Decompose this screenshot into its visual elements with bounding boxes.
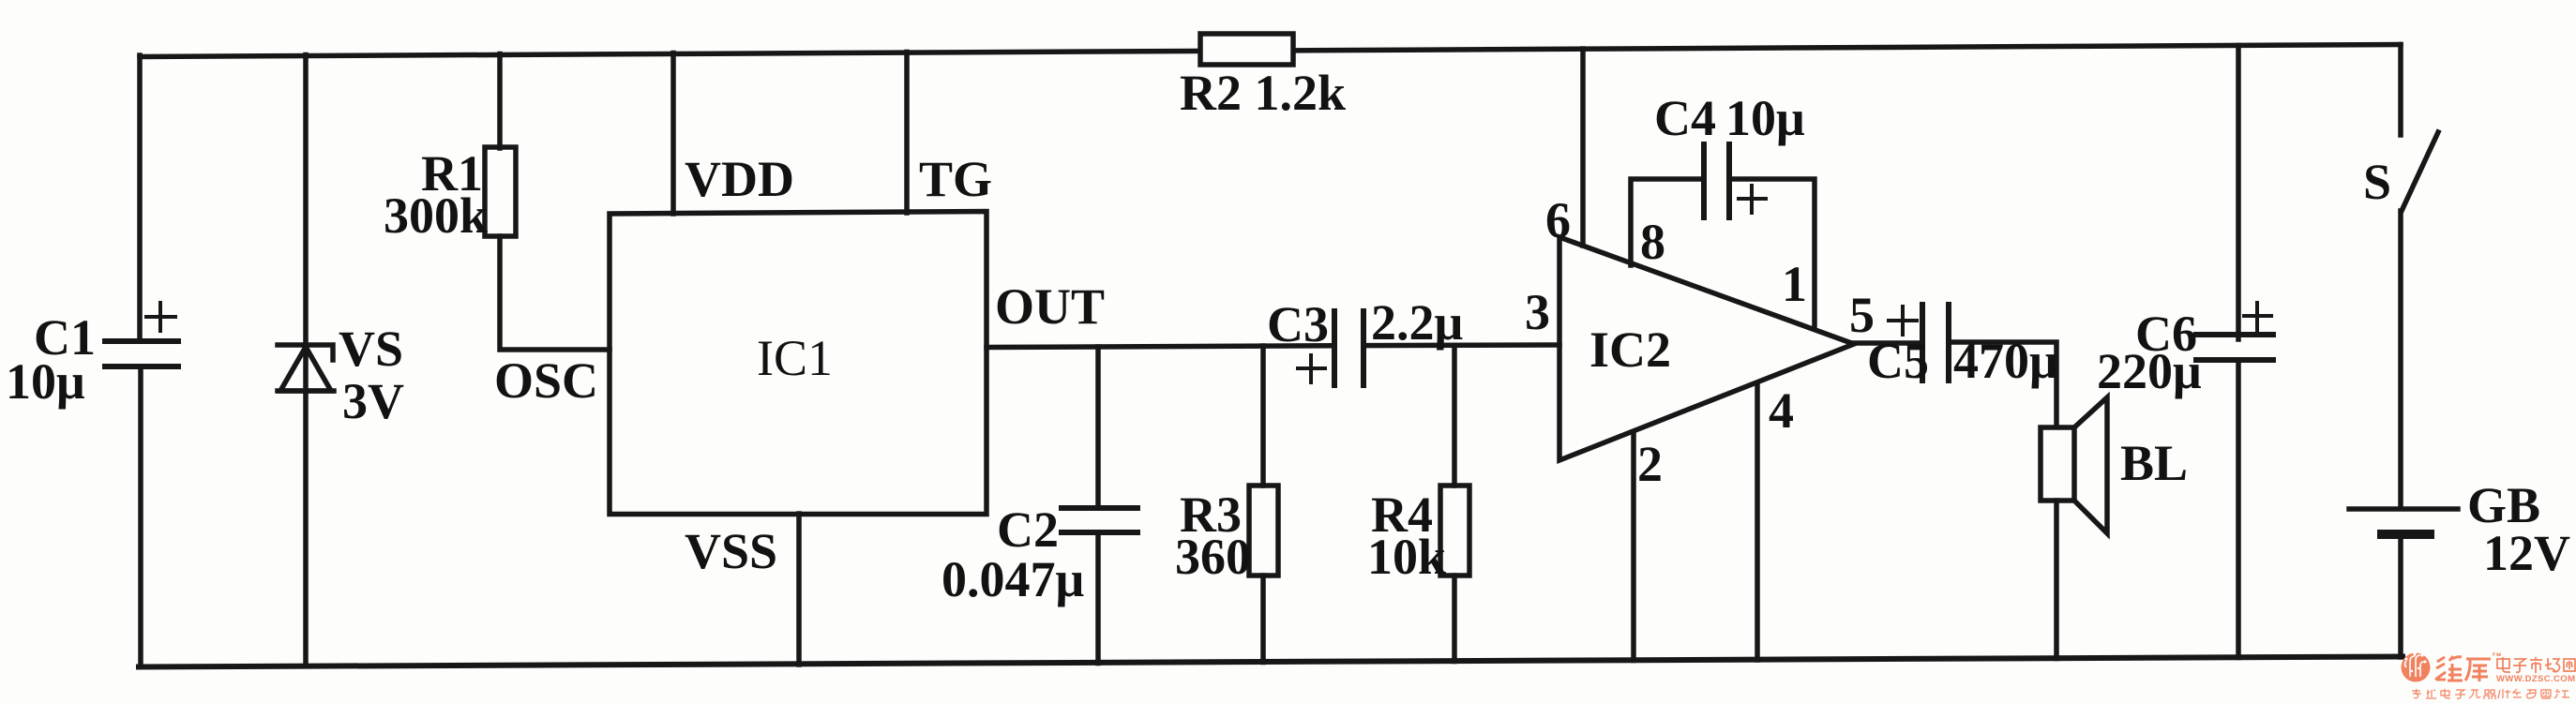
svg-text:C5: C5 (1867, 333, 1929, 389)
svg-text:VS: VS (339, 321, 403, 377)
svg-text:6: 6 (1545, 192, 1571, 248)
svg-text:2: 2 (1637, 436, 1663, 492)
svg-text:C3: C3 (1267, 296, 1329, 352)
svg-text:10μ: 10μ (1725, 90, 1805, 146)
svg-text:VSS: VSS (685, 523, 777, 579)
svg-text:OSC: OSC (494, 352, 598, 409)
svg-text:TG: TG (919, 151, 992, 207)
svg-text:IC1: IC1 (757, 330, 833, 386)
svg-text:4: 4 (1769, 382, 1794, 439)
svg-text:IC2: IC2 (1589, 322, 1671, 378)
svg-text:10μ: 10μ (6, 353, 85, 410)
svg-text:R2 1.2k: R2 1.2k (1180, 65, 1346, 121)
svg-text:VDD: VDD (685, 151, 794, 207)
svg-text:3V: 3V (342, 373, 404, 429)
svg-text:C4: C4 (1654, 90, 1716, 146)
svg-text:3: 3 (1525, 284, 1550, 340)
svg-text:300k: 300k (384, 187, 488, 244)
svg-text:S: S (2363, 154, 2391, 210)
svg-text:220μ: 220μ (2097, 343, 2202, 399)
svg-text:OUT: OUT (995, 278, 1105, 335)
svg-text:360: 360 (1175, 529, 1251, 585)
svg-text:C2: C2 (997, 501, 1059, 558)
svg-text:470μ: 470μ (1953, 333, 2058, 389)
svg-text:1: 1 (1782, 256, 1807, 312)
svg-text:10k: 10k (1367, 529, 1446, 585)
svg-text:12V: 12V (2483, 525, 2570, 581)
svg-text:2.2μ: 2.2μ (1371, 294, 1463, 351)
svg-text:BL: BL (2120, 435, 2188, 491)
svg-text:WWW.DZSC.COM: WWW.DZSC.COM (2496, 674, 2575, 684)
svg-text:8: 8 (1640, 214, 1665, 270)
svg-text:0.047μ: 0.047μ (942, 551, 1084, 607)
